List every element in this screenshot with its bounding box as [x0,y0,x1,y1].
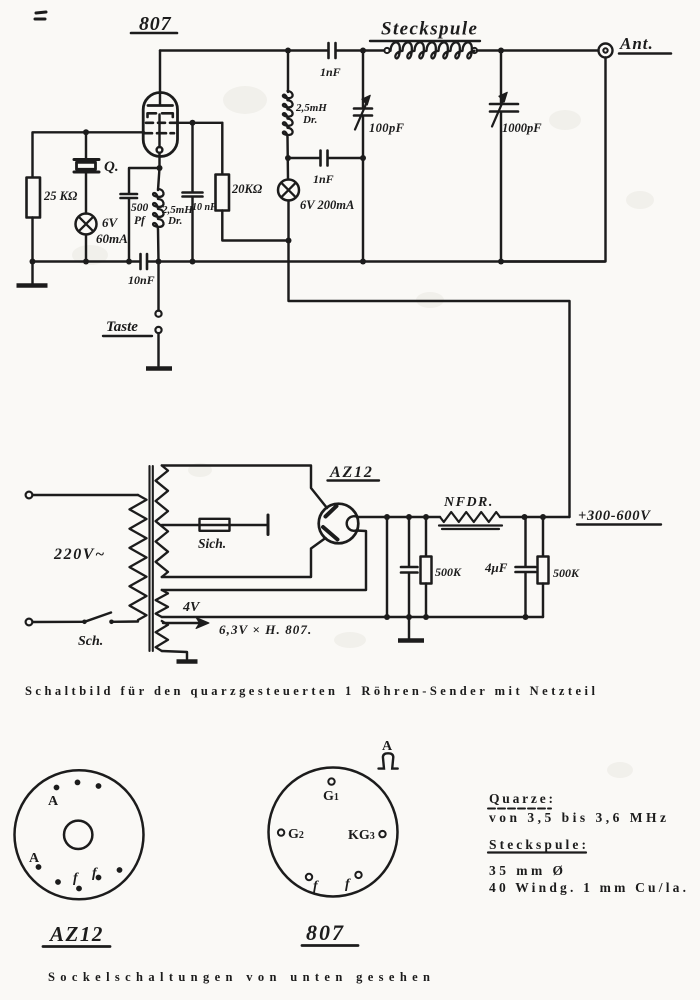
ground (filter) [408,617,410,639]
capacitor 10nF screen bypass [191,123,193,192]
socket 807 outline [269,768,398,897]
faint scan blotches [72,86,654,778]
resistor 500K (bleeder 2) [542,517,544,556]
svg-text:+300-600V: +300-600V [578,508,651,524]
svg-text:Dr.: Dr. [167,215,182,227]
switch Sch. [82,620,87,625]
node anode/choke junction [285,48,291,54]
coil L1 Steckspule terminal left [384,48,389,53]
fuse Sich. (center tap) [162,524,268,526]
tube 807 grid g2 (dashed) [146,122,176,125]
resistor 500K (bleeder 1) [425,517,427,556]
ground (Taste) [146,366,172,371]
svg-text:807: 807 [306,920,345,945]
svg-text:Dr.: Dr. [302,114,317,126]
tube 807 V1 envelope [143,93,177,157]
svg-text:1000pF: 1000pF [502,121,542,135]
socket AZ12 pins [36,780,123,892]
svg-text:AZ12: AZ12 [329,464,374,481]
note Steckspule [489,837,686,895]
mains terminal bottom [26,619,33,626]
capacitor 10nF (cathode rail series) [141,254,148,269]
transformer primary winding [130,495,147,620]
tube 807 grid g1 (dashed) [148,113,173,117]
svg-text:Sich.: Sich. [198,536,226,551]
tube 807 anode plate [148,104,173,107]
arrow 6.3V heater tap [163,622,201,624]
rectifier tube AZ12 [319,504,359,544]
choke lead bottom to lamp [286,137,289,179]
node 100pF bottom junction [360,155,366,161]
note Quarze [489,791,666,825]
svg-text:100pF: 100pF [369,121,405,135]
coil L1 Steckspule windings [391,42,475,58]
svg-text:Pf: Pf [134,215,146,227]
antenna terminal Ant. [599,44,613,58]
transformer HV secondary winding [156,466,168,578]
svg-text:1nF: 1nF [320,65,341,79]
svg-text:G1: G1 [323,789,339,804]
caption Sockelschaltungen [48,970,430,984]
socket 807 pin labels [288,789,375,894]
choke 2.5mH Dr. (anode) windings [283,91,293,137]
svg-text:2,5mH: 2,5mH [295,102,327,114]
svg-text:20KΩ: 20KΩ [231,182,263,196]
ground rail wire [33,260,606,262]
wire coil to antenna [477,49,599,51]
label Steckspule [381,19,478,40]
choke 2.5mH Dr. (anode feed) lead top [287,51,289,93]
wire top rail (anode to antenna) [160,49,328,51]
tube 807 grid g3 (dashed) [145,132,175,135]
wire output rail from AZ12 cathode [358,516,441,518]
svg-text:4μF: 4μF [484,560,508,575]
svg-text:500K: 500K [553,566,580,580]
svg-text:10 nF: 10 nF [192,202,217,213]
ground (6.3V winding) [162,651,187,659]
wire AZ12 filament to 4V top [162,531,366,591]
tube 807 cathode stem [158,115,160,148]
svg-text:10nF: 10nF [128,273,155,287]
socket AZ12 pin labels [29,794,98,886]
svg-text:Sockelschaltungen von unten ge: Sockelschaltungen von unten gesehen [48,970,430,984]
node choke/1nF junction [285,155,291,161]
svg-text:Q.: Q. [104,159,119,175]
svg-text:500K: 500K [435,565,462,579]
svg-text:Steckspule: Steckspule [381,19,478,40]
wire grid line left (g3 to 25K and quartz) [33,132,145,177]
svg-text:6V: 6V [102,215,119,230]
svg-text:220V~: 220V~ [53,546,106,563]
svg-text:4V: 4V [182,600,201,615]
svg-text:A: A [29,851,40,866]
svg-text:Ant.: Ant. [619,34,654,53]
svg-text:NFDR.: NFDR. [443,495,494,510]
mains terminal top [26,492,33,499]
svg-text:A: A [382,739,393,754]
capacitor 1nF coupling (series, top rail) [329,43,336,58]
label 807 (tube designator) [139,13,172,35]
transformer 4V winding [156,590,168,617]
svg-text:500: 500 [131,202,149,214]
choke NFDR (smoothing) [440,512,500,522]
label 10nF screen bypass [192,202,217,213]
svg-text:KG3: KG3 [348,828,375,843]
socket AZ12 outline [15,770,144,899]
svg-text:6,3V × H. 807.: 6,3V × H. 807. [219,622,312,637]
lamp 6V 60mA [76,214,97,235]
tube 807 cathode lead [158,153,160,168]
svg-text:Steckspule:: Steckspule: [489,837,586,852]
svg-text:G2: G2 [288,827,304,842]
wire cathode return vertical [386,517,388,617]
node 20K to lamp junction [286,238,292,244]
node 1000pF junction top [498,48,504,54]
svg-text:A: A [48,794,59,809]
lamp 6V 200mA [278,180,299,201]
ground (left, 25K) [31,262,33,285]
variable capacitor 100pF [362,51,364,108]
label +300-600V [578,508,651,524]
node 100pF junction top [360,48,366,54]
svg-text:6V 200mA: 6V 200mA [300,198,354,212]
variable capacitor 1000pF [500,51,502,103]
capacitor 1nF (tank coupling) [288,157,320,159]
wire bottom return rail (4V to filter) [162,616,543,618]
socket AZ12 center hole [64,821,92,849]
smudge mark top-left [35,12,46,19]
wire screen (g2 to bypass and 20K) [178,122,223,124]
tube 807 cathode circle [157,147,163,153]
capacitor 500Pf (grid) [129,168,160,193]
capacitor filter 1 [408,517,410,566]
key Taste (Morse key jack) [157,262,159,311]
svg-text:35 mm Ø: 35 mm Ø [489,863,563,878]
wire HV top to AZ12 anode [162,466,327,509]
label 807 (socket) [306,920,345,945]
svg-text:60mA: 60mA [96,231,128,246]
svg-text:1nF: 1nF [313,172,334,186]
quartz crystal Q [85,132,87,159]
capacitor 4uF filter 2 [524,517,526,566]
wire HV bottom to AZ12 anode 2 [162,538,326,577]
anode top cap A (807) [382,739,393,754]
transformer 6.3V winding [156,621,168,651]
resistor 20KOhm (screen feed) [221,123,223,174]
svg-text:Taste: Taste [106,319,138,335]
label AZ12 (socket) [48,922,104,946]
socket 807 pins [278,778,386,880]
tube 807 anode lead wire [159,51,161,106]
svg-text:25 KΩ: 25 KΩ [43,189,78,203]
svg-text:AZ12: AZ12 [48,922,104,946]
caption Schaltbild [25,684,596,698]
wire antenna down to ground rail [501,58,606,262]
transformer core [150,466,153,651]
coil L1 Steckspule terminal right [472,48,477,53]
choke 2.5mH Dr. (cathode) [158,168,160,190]
wire lamp down, HV feed across to PSU [289,201,570,518]
wire cap to coil [336,49,384,51]
svg-text:Sch.: Sch. [78,634,103,649]
resistor 25KOhm [27,178,41,218]
